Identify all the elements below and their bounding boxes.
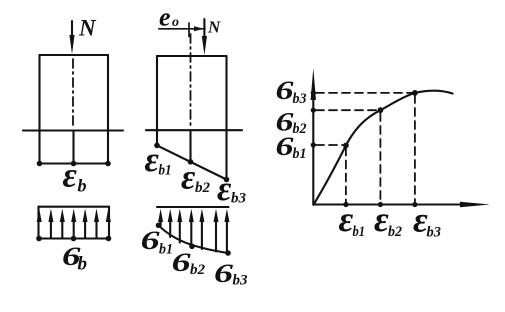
svg-text:N: N	[78, 16, 97, 41]
svg-text:o: o	[172, 15, 179, 30]
svg-text:b2: b2	[293, 121, 307, 137]
svg-text:b1: b1	[353, 224, 366, 240]
svg-text:6: 6	[276, 132, 294, 161]
left stress arrows (7 up arrows)	[37, 209, 111, 239]
svg-text:b3: b3	[231, 190, 247, 206]
middle column: rectangle	[157, 56, 227, 180]
svg-text:ε: ε	[63, 156, 78, 195]
svg-text:N: N	[207, 18, 221, 37]
svg-text:b: b	[78, 176, 87, 196]
middle column: e0 dimension	[159, 23, 205, 37]
label epsilon_b3	[217, 169, 247, 208]
svg-text:6: 6	[172, 248, 191, 277]
svg-text:b2: b2	[388, 224, 402, 240]
graph: dots on y axis	[311, 90, 316, 147]
graph: label eps_b2	[374, 199, 402, 240]
label epsilon_b2	[181, 158, 211, 197]
graph: sigma-epsilon curve	[314, 91, 453, 205]
graph: x axis	[313, 202, 490, 208]
graph: dashed vertical eps_b3	[414, 95, 416, 202]
middle strain line (sloped) with node dots	[154, 143, 229, 183]
graph: y axis	[311, 68, 316, 205]
svg-text:b3: b3	[233, 273, 249, 289]
svg-text:b2: b2	[190, 262, 206, 278]
svg-text:ε: ε	[217, 169, 232, 208]
graph: dashed vertical eps_b1	[345, 148, 347, 203]
svg-text:ε: ε	[145, 140, 160, 179]
middle column: centerline (dash-dot)	[190, 34, 192, 127]
svg-text:b: b	[78, 254, 88, 275]
label epsilon_b	[63, 156, 87, 196]
graph: dots on curve	[343, 90, 418, 148]
graph: dashed vertical eps_b2	[379, 113, 381, 202]
graph: dashed horizontal sigma_b1	[316, 144, 343, 146]
graph: dashed horizontal sigma_b3	[316, 92, 412, 94]
left column: section line	[23, 129, 123, 131]
label sigma_b3	[214, 259, 248, 289]
middle stress block (curved)	[156, 207, 231, 256]
label sigma_b	[62, 242, 87, 275]
graph: dots on x axis	[343, 202, 417, 207]
svg-text:b2: b2	[195, 180, 211, 196]
graph: label sigma_b3	[276, 76, 307, 107]
graph: dashed horizontal sigma_b2	[316, 109, 378, 111]
left uniform stress block	[36, 207, 111, 242]
svg-text:ε: ε	[374, 199, 389, 239]
left column: centerline (dash-dot)	[72, 59, 74, 127]
label e0	[159, 3, 179, 32]
svg-text:b3: b3	[427, 225, 442, 241]
graph: label eps_b3	[413, 200, 441, 241]
middle column: center vertical below section	[189, 130, 191, 162]
svg-text:e: e	[159, 3, 171, 32]
middle stress arrows (7 up arrows)	[158, 209, 229, 253]
svg-text:6: 6	[141, 226, 160, 255]
svg-text:b1: b1	[293, 146, 307, 162]
label sigma_b2	[172, 248, 206, 278]
label epsilon_b1	[145, 140, 172, 179]
middle column: force N arrow (eccentric)	[202, 19, 207, 55]
left column: center vertical below section	[72, 131, 74, 164]
svg-text:ε: ε	[181, 158, 196, 197]
svg-text:ε: ε	[339, 199, 354, 239]
left column: rectangle	[40, 55, 109, 164]
graph: label sigma_b2	[276, 108, 307, 138]
label sigma_b1	[141, 226, 173, 258]
graph: label eps_b1	[339, 199, 366, 240]
svg-text:b1: b1	[159, 163, 172, 179]
middle column: section line	[146, 129, 242, 131]
left column: force N arrow	[69, 21, 74, 54]
svg-text:6: 6	[214, 259, 233, 288]
svg-text:6: 6	[276, 76, 294, 105]
graph: label sigma_b1	[276, 132, 307, 162]
svg-text:b3: b3	[293, 91, 307, 107]
left strain line (uniform) with node dots	[37, 161, 111, 167]
